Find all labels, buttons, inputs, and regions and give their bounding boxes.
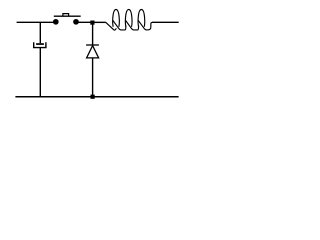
wire: [76, 21, 92, 23]
switch SW1 bar: [54, 15, 81, 17]
switch SW1 contact right: [73, 19, 79, 25]
wire: [152, 21, 179, 23]
wire: [92, 58, 94, 97]
node junction top: [90, 21, 94, 25]
node junction bottom: [91, 95, 95, 99]
switch SW1 contact left: [53, 19, 59, 25]
inductor L1 coil: [106, 9, 153, 30]
wire: [39, 22, 41, 43]
capacitor C1 bottom plate bracket: [34, 42, 46, 47]
switch SW1 button: [63, 14, 69, 17]
wire: [92, 23, 94, 45]
wire: [92, 21, 105, 23]
wire: [15, 96, 178, 98]
wire: [39, 48, 41, 97]
capacitor C1 (polarized) top plate: [36, 43, 44, 45]
diode D1 triangle: [87, 46, 99, 58]
diode D1 cathode bar: [86, 44, 99, 46]
wire: [17, 21, 56, 23]
